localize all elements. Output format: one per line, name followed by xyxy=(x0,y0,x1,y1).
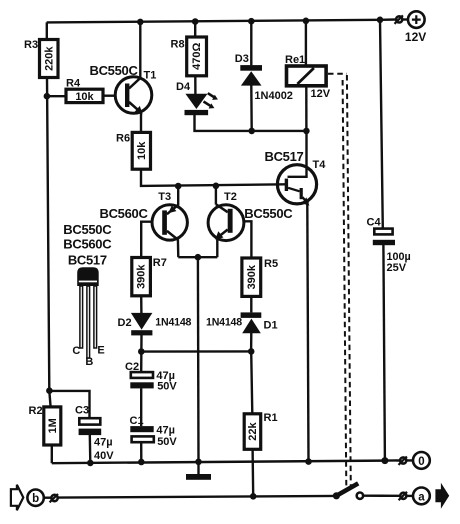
wire right rail lower xyxy=(383,245,385,461)
wire T1 emitter to R6 xyxy=(140,111,142,132)
transistor T4 BC517 xyxy=(265,149,327,206)
svg-text:E: E xyxy=(97,344,104,356)
svg-text:1N4148: 1N4148 xyxy=(206,317,242,329)
wire T3 base to R7 xyxy=(141,222,153,258)
wire C2 to C1 xyxy=(140,388,142,426)
wire D1 down xyxy=(250,333,253,351)
svg-text:BC550C: BC550C xyxy=(90,63,139,78)
wire left rail xyxy=(47,77,51,407)
wire R7 to D2 xyxy=(140,296,143,313)
svg-text:BC550C: BC550C xyxy=(244,206,293,221)
svg-text:R3: R3 xyxy=(24,39,38,51)
svg-text:BC550C: BC550C xyxy=(63,222,112,237)
resistor R8 xyxy=(171,37,207,76)
resistor R2 xyxy=(29,405,61,445)
wire R2 bottom xyxy=(51,445,53,463)
wire R8 to D4 xyxy=(194,76,196,94)
svg-text:D2: D2 xyxy=(118,317,132,329)
svg-text:D3: D3 xyxy=(235,53,249,65)
svg-text:220k: 220k xyxy=(44,46,56,71)
wire R4 left stub xyxy=(47,95,66,97)
diode D2 1N4148 xyxy=(118,313,192,336)
wire C1 to rail xyxy=(140,442,143,462)
transistor package TO-92 pinout xyxy=(63,222,112,368)
svg-text:47µ: 47µ xyxy=(156,425,175,437)
svg-text:1N4148: 1N4148 xyxy=(155,317,191,329)
wire Re1 bottom xyxy=(305,86,308,131)
svg-text:B: B xyxy=(85,356,93,368)
svg-text:Re1: Re1 xyxy=(285,54,305,66)
svg-text:R7: R7 xyxy=(153,257,167,269)
svg-text:390k: 390k xyxy=(246,264,258,289)
svg-text:BC560C: BC560C xyxy=(100,206,149,221)
wire T4 emitter drop xyxy=(307,204,308,462)
svg-text:R4: R4 xyxy=(66,77,81,89)
svg-text:1N4002: 1N4002 xyxy=(254,90,293,102)
svg-text:22k: 22k xyxy=(247,422,259,441)
svg-text:R8: R8 xyxy=(171,38,185,50)
svg-text:12V: 12V xyxy=(311,88,331,100)
wire D3 top stub xyxy=(250,21,252,65)
ground xyxy=(186,474,211,480)
wire ground stub xyxy=(197,462,199,474)
svg-text:a: a xyxy=(418,491,425,503)
svg-text:12V: 12V xyxy=(405,30,426,44)
wire bottom rail xyxy=(52,460,397,463)
diode D3 1N4002 xyxy=(235,53,293,102)
wire Re1 top stub xyxy=(305,20,307,66)
svg-text:10k: 10k xyxy=(136,141,148,160)
svg-text:390k: 390k xyxy=(136,264,148,289)
svg-text:R2: R2 xyxy=(29,405,43,417)
wire T1 collector xyxy=(139,21,141,78)
wire C3 branch xyxy=(49,391,89,418)
capacitor C2 xyxy=(125,361,177,393)
wire T3 collector down xyxy=(177,239,180,257)
wire right rail upper xyxy=(380,20,383,229)
svg-text:T3: T3 xyxy=(158,191,171,203)
svg-text:10k: 10k xyxy=(75,91,94,103)
svg-text:40V: 40V xyxy=(94,450,114,462)
resistor R4 xyxy=(66,77,103,103)
wire T3 emitter up xyxy=(177,186,179,206)
wire center drop to ground rail xyxy=(197,257,200,462)
switch contact xyxy=(336,483,363,499)
terminal a xyxy=(397,483,450,509)
svg-text:C3: C3 xyxy=(75,404,89,416)
wire D2 to C2 xyxy=(140,335,143,372)
svg-text:47µ: 47µ xyxy=(94,437,113,449)
resistor R1 xyxy=(244,412,277,449)
svg-text:50V: 50V xyxy=(157,436,177,448)
svg-text:C: C xyxy=(72,345,80,357)
wire T4 collector xyxy=(288,131,307,177)
svg-text:R1: R1 xyxy=(264,412,278,424)
relay Re1 xyxy=(285,54,331,100)
terminal +12V xyxy=(395,11,427,44)
wire R5 to D1 xyxy=(250,296,252,312)
svg-text:BC517: BC517 xyxy=(68,252,107,267)
diode D1 1N4148 xyxy=(206,312,278,333)
wire emitter join xyxy=(178,256,217,258)
svg-text:b: b xyxy=(32,493,39,505)
svg-text:R5: R5 xyxy=(264,258,278,270)
wire T2 base to R5 xyxy=(244,221,252,258)
wire C3 bottom xyxy=(89,435,92,463)
svg-text:R6: R6 xyxy=(116,133,130,145)
wire T2 collector up xyxy=(215,186,217,205)
svg-text:0: 0 xyxy=(418,456,424,468)
resistor R6 xyxy=(116,132,151,169)
svg-text:1M: 1M xyxy=(47,418,59,433)
svg-text:C4: C4 xyxy=(367,217,382,229)
LED D4 xyxy=(176,81,218,115)
wire R1 bottom to touch line xyxy=(251,449,254,496)
wire T2 emitter down xyxy=(216,238,218,258)
capacitor C4 xyxy=(367,217,411,274)
capacitor C3 xyxy=(75,404,114,462)
terminal 0 xyxy=(397,452,430,469)
svg-text:C2: C2 xyxy=(125,361,139,373)
svg-text:T1: T1 xyxy=(144,70,157,82)
svg-text:25V: 25V xyxy=(387,262,407,274)
svg-text:D1: D1 xyxy=(264,320,278,332)
resistor R3 xyxy=(24,39,58,78)
svg-text:50V: 50V xyxy=(157,381,177,393)
svg-text:T2: T2 xyxy=(224,191,237,203)
resistor R7 xyxy=(132,257,167,296)
svg-text:BC517: BC517 xyxy=(265,149,304,164)
wire touch line b to switch xyxy=(58,496,337,498)
wire T1 base xyxy=(103,94,116,96)
resistor R5 xyxy=(242,258,278,297)
capacitor C1 xyxy=(130,415,178,448)
wire R6 to rail to T4 base xyxy=(141,169,286,186)
terminal b xyxy=(11,485,58,510)
svg-text:470Ω: 470Ω xyxy=(191,43,203,70)
svg-text:D4: D4 xyxy=(176,81,191,93)
wire cross y351 D2 to D1 xyxy=(141,350,251,353)
wire R3 top stub xyxy=(46,22,48,39)
wire top rail xyxy=(47,20,397,23)
wire switch to a xyxy=(363,495,397,497)
transistor T3 BC560C xyxy=(100,191,188,240)
transistor T1 BC550C xyxy=(90,63,157,114)
transistor T2 BC550C xyxy=(208,191,293,240)
wire D4 down and run to relay branch xyxy=(195,115,307,131)
svg-text:T4: T4 xyxy=(313,159,327,171)
svg-text:BC560C: BC560C xyxy=(63,237,112,252)
node junction dots xyxy=(44,17,389,500)
mechanical linkage dashed relay to switch xyxy=(328,74,351,488)
wire D3 bottom xyxy=(250,85,253,130)
wire R1 top drop xyxy=(251,351,252,413)
wire R8 top stub xyxy=(194,22,196,37)
svg-text:C1: C1 xyxy=(130,415,144,427)
